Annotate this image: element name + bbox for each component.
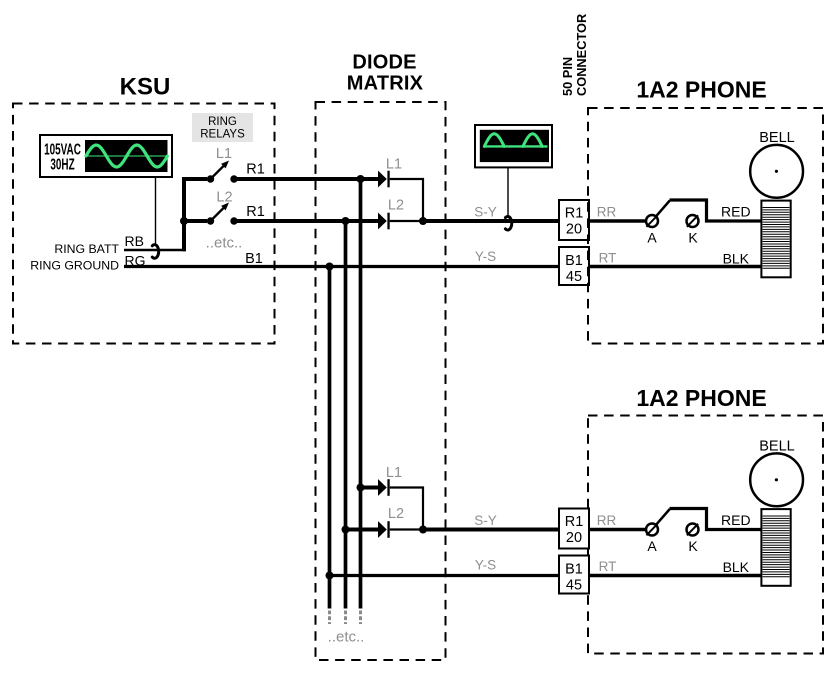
wire S-Y to connector (bottom) xyxy=(423,528,559,532)
bell gong (phone 2) xyxy=(750,453,803,506)
KSU enclosure dashed box xyxy=(13,104,275,344)
ring generator scope U1 (105VAC 30HZ source) xyxy=(40,135,172,177)
ringer coil (phone 2) xyxy=(761,509,790,586)
svg-text:BELL: BELL xyxy=(759,130,794,146)
svg-text:RT: RT xyxy=(599,559,617,574)
svg-text:B1: B1 xyxy=(245,251,263,267)
svg-text:L2: L2 xyxy=(216,190,232,206)
svg-text:50 PIN: 50 PIN xyxy=(560,57,575,96)
svg-text:K: K xyxy=(688,230,698,246)
svg-text:RING BATT: RING BATT xyxy=(54,242,119,256)
1A2 PHONE 1 enclosure dashed box xyxy=(588,108,823,344)
svg-text:Y-S: Y-S xyxy=(475,249,496,264)
diode D4 (L2 bottom) xyxy=(378,521,390,538)
wire RT/BLK to ringer coil (phone 1) xyxy=(589,265,761,269)
wire RT/BLK to ringer coil (phone 2) xyxy=(589,574,761,578)
svg-text:..etc..: ..etc.. xyxy=(328,629,365,646)
wire S-Y to connector (top) xyxy=(423,219,559,223)
wire L2 relay feed xyxy=(184,219,207,223)
wire B1 ring ground bus xyxy=(124,265,559,268)
wire relay feed riser xyxy=(184,179,207,251)
svg-text:A: A xyxy=(647,230,657,246)
sine wave trace xyxy=(86,145,167,167)
svg-text:RR: RR xyxy=(597,204,617,219)
svg-text:20: 20 xyxy=(566,530,582,546)
diode D2 (L2 top) xyxy=(378,213,390,230)
wire RB from ring batt xyxy=(124,249,186,252)
scope baseline trace xyxy=(484,145,548,147)
svg-text:L1: L1 xyxy=(216,146,232,162)
svg-text:RB: RB xyxy=(125,233,144,249)
matrix bus column 2 (R1-L2) xyxy=(344,221,348,609)
wire RR to ringer contact A (phone 2) xyxy=(589,528,647,532)
svg-text:RR: RR xyxy=(597,513,617,528)
scope U1 probe hook clip xyxy=(152,245,158,259)
connector pin R1/20 box (top) xyxy=(559,200,589,240)
wire R1 ring lead 1 xyxy=(234,177,379,181)
svg-text:..etc..: ..etc.. xyxy=(206,235,243,252)
junction column3/bottom row xyxy=(326,572,334,580)
switch blade from A (phone 1) xyxy=(656,201,670,217)
svg-text:RED: RED xyxy=(721,204,751,220)
svg-text:B1: B1 xyxy=(565,253,583,269)
terminal K (phone 1) xyxy=(687,215,699,227)
wire diode D2 output xyxy=(390,220,423,222)
scope U2 probe lead wire xyxy=(507,167,509,217)
svg-text:L2: L2 xyxy=(388,506,404,522)
terminal A (phone 1) xyxy=(646,215,658,227)
svg-text:A: A xyxy=(647,538,657,554)
junction column3/top row xyxy=(326,263,334,271)
svg-text:L1: L1 xyxy=(386,157,402,173)
svg-text:S-Y: S-Y xyxy=(474,205,497,220)
svg-text:RT: RT xyxy=(599,251,617,266)
svg-text:K: K xyxy=(688,538,698,554)
wire RR to ringer contact A (phone 1) xyxy=(589,219,647,223)
svg-text:Y-S: Y-S xyxy=(475,558,496,573)
terminal A (phone 2) xyxy=(646,524,658,536)
1A2 PHONE 2 enclosure dashed box xyxy=(588,416,823,654)
svg-text:R1: R1 xyxy=(565,206,584,222)
svg-text:45: 45 xyxy=(566,269,582,285)
svg-text:CONNECTOR: CONNECTOR xyxy=(574,14,589,96)
svg-text:RED: RED xyxy=(721,512,751,528)
rectified hump 2 xyxy=(523,134,542,147)
svg-text:20: 20 xyxy=(566,222,582,238)
relay switch contact L2 xyxy=(207,203,238,225)
diode D1 (L1 top) xyxy=(378,171,390,188)
RING RELAYS label box xyxy=(192,113,253,142)
svg-text:R1: R1 xyxy=(246,161,265,177)
wire diode D4 output xyxy=(390,528,423,530)
svg-text:RING GROUND: RING GROUND xyxy=(30,259,119,273)
switch blade from A (phone 2) xyxy=(656,509,670,525)
svg-text:DIODE: DIODE xyxy=(352,52,416,74)
wire jumper over K to ringer (phone 1) xyxy=(670,200,762,221)
svg-text:BELL: BELL xyxy=(759,439,794,455)
matrix bus column 3 (B1) xyxy=(328,267,332,609)
svg-text:B1: B1 xyxy=(565,562,583,578)
junction column1/bottom row xyxy=(357,484,365,492)
wire Y-S to connector (bottom) xyxy=(330,574,560,577)
junction feed/L2 xyxy=(180,217,188,225)
connector pin B1/45 box (bottom) xyxy=(559,556,589,594)
svg-text:BLK: BLK xyxy=(723,251,750,267)
junction column2/top row xyxy=(342,217,350,225)
wire to diode D4 xyxy=(344,528,379,532)
relay switch contact L1 xyxy=(207,161,238,183)
svg-text:MATRIX: MATRIX xyxy=(347,73,424,95)
wire R1 ring lead 2 xyxy=(234,219,379,223)
svg-text:KSU: KSU xyxy=(120,74,171,101)
scope baseline trace xyxy=(86,155,168,157)
junction diode outputs (top) xyxy=(419,217,427,225)
svg-text:S-Y: S-Y xyxy=(474,513,497,528)
bell gong (phone 1) xyxy=(750,145,803,198)
svg-text:BLK: BLK xyxy=(723,559,750,575)
wire to diode D3 xyxy=(359,486,379,490)
svg-text:L1: L1 xyxy=(386,465,402,481)
ringer coil (phone 1) xyxy=(761,201,790,278)
ringing scope U2 (rectified wave) xyxy=(475,125,552,167)
50 PIN CONNECTOR vertical label xyxy=(560,14,589,96)
svg-text:R1: R1 xyxy=(565,514,584,530)
DIODE MATRIX enclosure dashed box xyxy=(316,102,446,660)
junction column1/top row xyxy=(357,175,365,183)
junction diode outputs (bottom) xyxy=(419,526,427,534)
rectified hump 1 xyxy=(484,134,504,147)
junction column2/bottom row xyxy=(342,526,350,534)
svg-text:1A2 PHONE: 1A2 PHONE xyxy=(636,77,766,103)
svg-text:RING: RING xyxy=(208,116,237,128)
svg-text:30HZ: 30HZ xyxy=(50,155,74,173)
svg-text:RELAYS: RELAYS xyxy=(200,128,245,140)
svg-text:R1: R1 xyxy=(246,204,265,220)
wire diode D3 output to junction xyxy=(390,488,423,530)
wire jumper over K to ringer (phone 2) xyxy=(670,509,762,530)
terminal K (phone 2) xyxy=(687,524,699,536)
connector pin B1/45 box (top) xyxy=(559,247,589,285)
matrix bus continuation stubs xyxy=(330,611,361,625)
diode D3 (L1 bottom) xyxy=(378,479,390,496)
scope U2 probe hook clip xyxy=(505,216,511,230)
svg-text:45: 45 xyxy=(566,578,582,594)
wire diode D1 output to junction xyxy=(390,179,423,221)
scope U1 probe lead wire xyxy=(155,177,157,244)
connector pin R1/20 box (bottom) xyxy=(559,509,589,549)
svg-text:L2: L2 xyxy=(388,198,404,214)
svg-text:1A2 PHONE: 1A2 PHONE xyxy=(636,385,766,411)
matrix bus column 1 (R1-L1) xyxy=(359,179,363,609)
